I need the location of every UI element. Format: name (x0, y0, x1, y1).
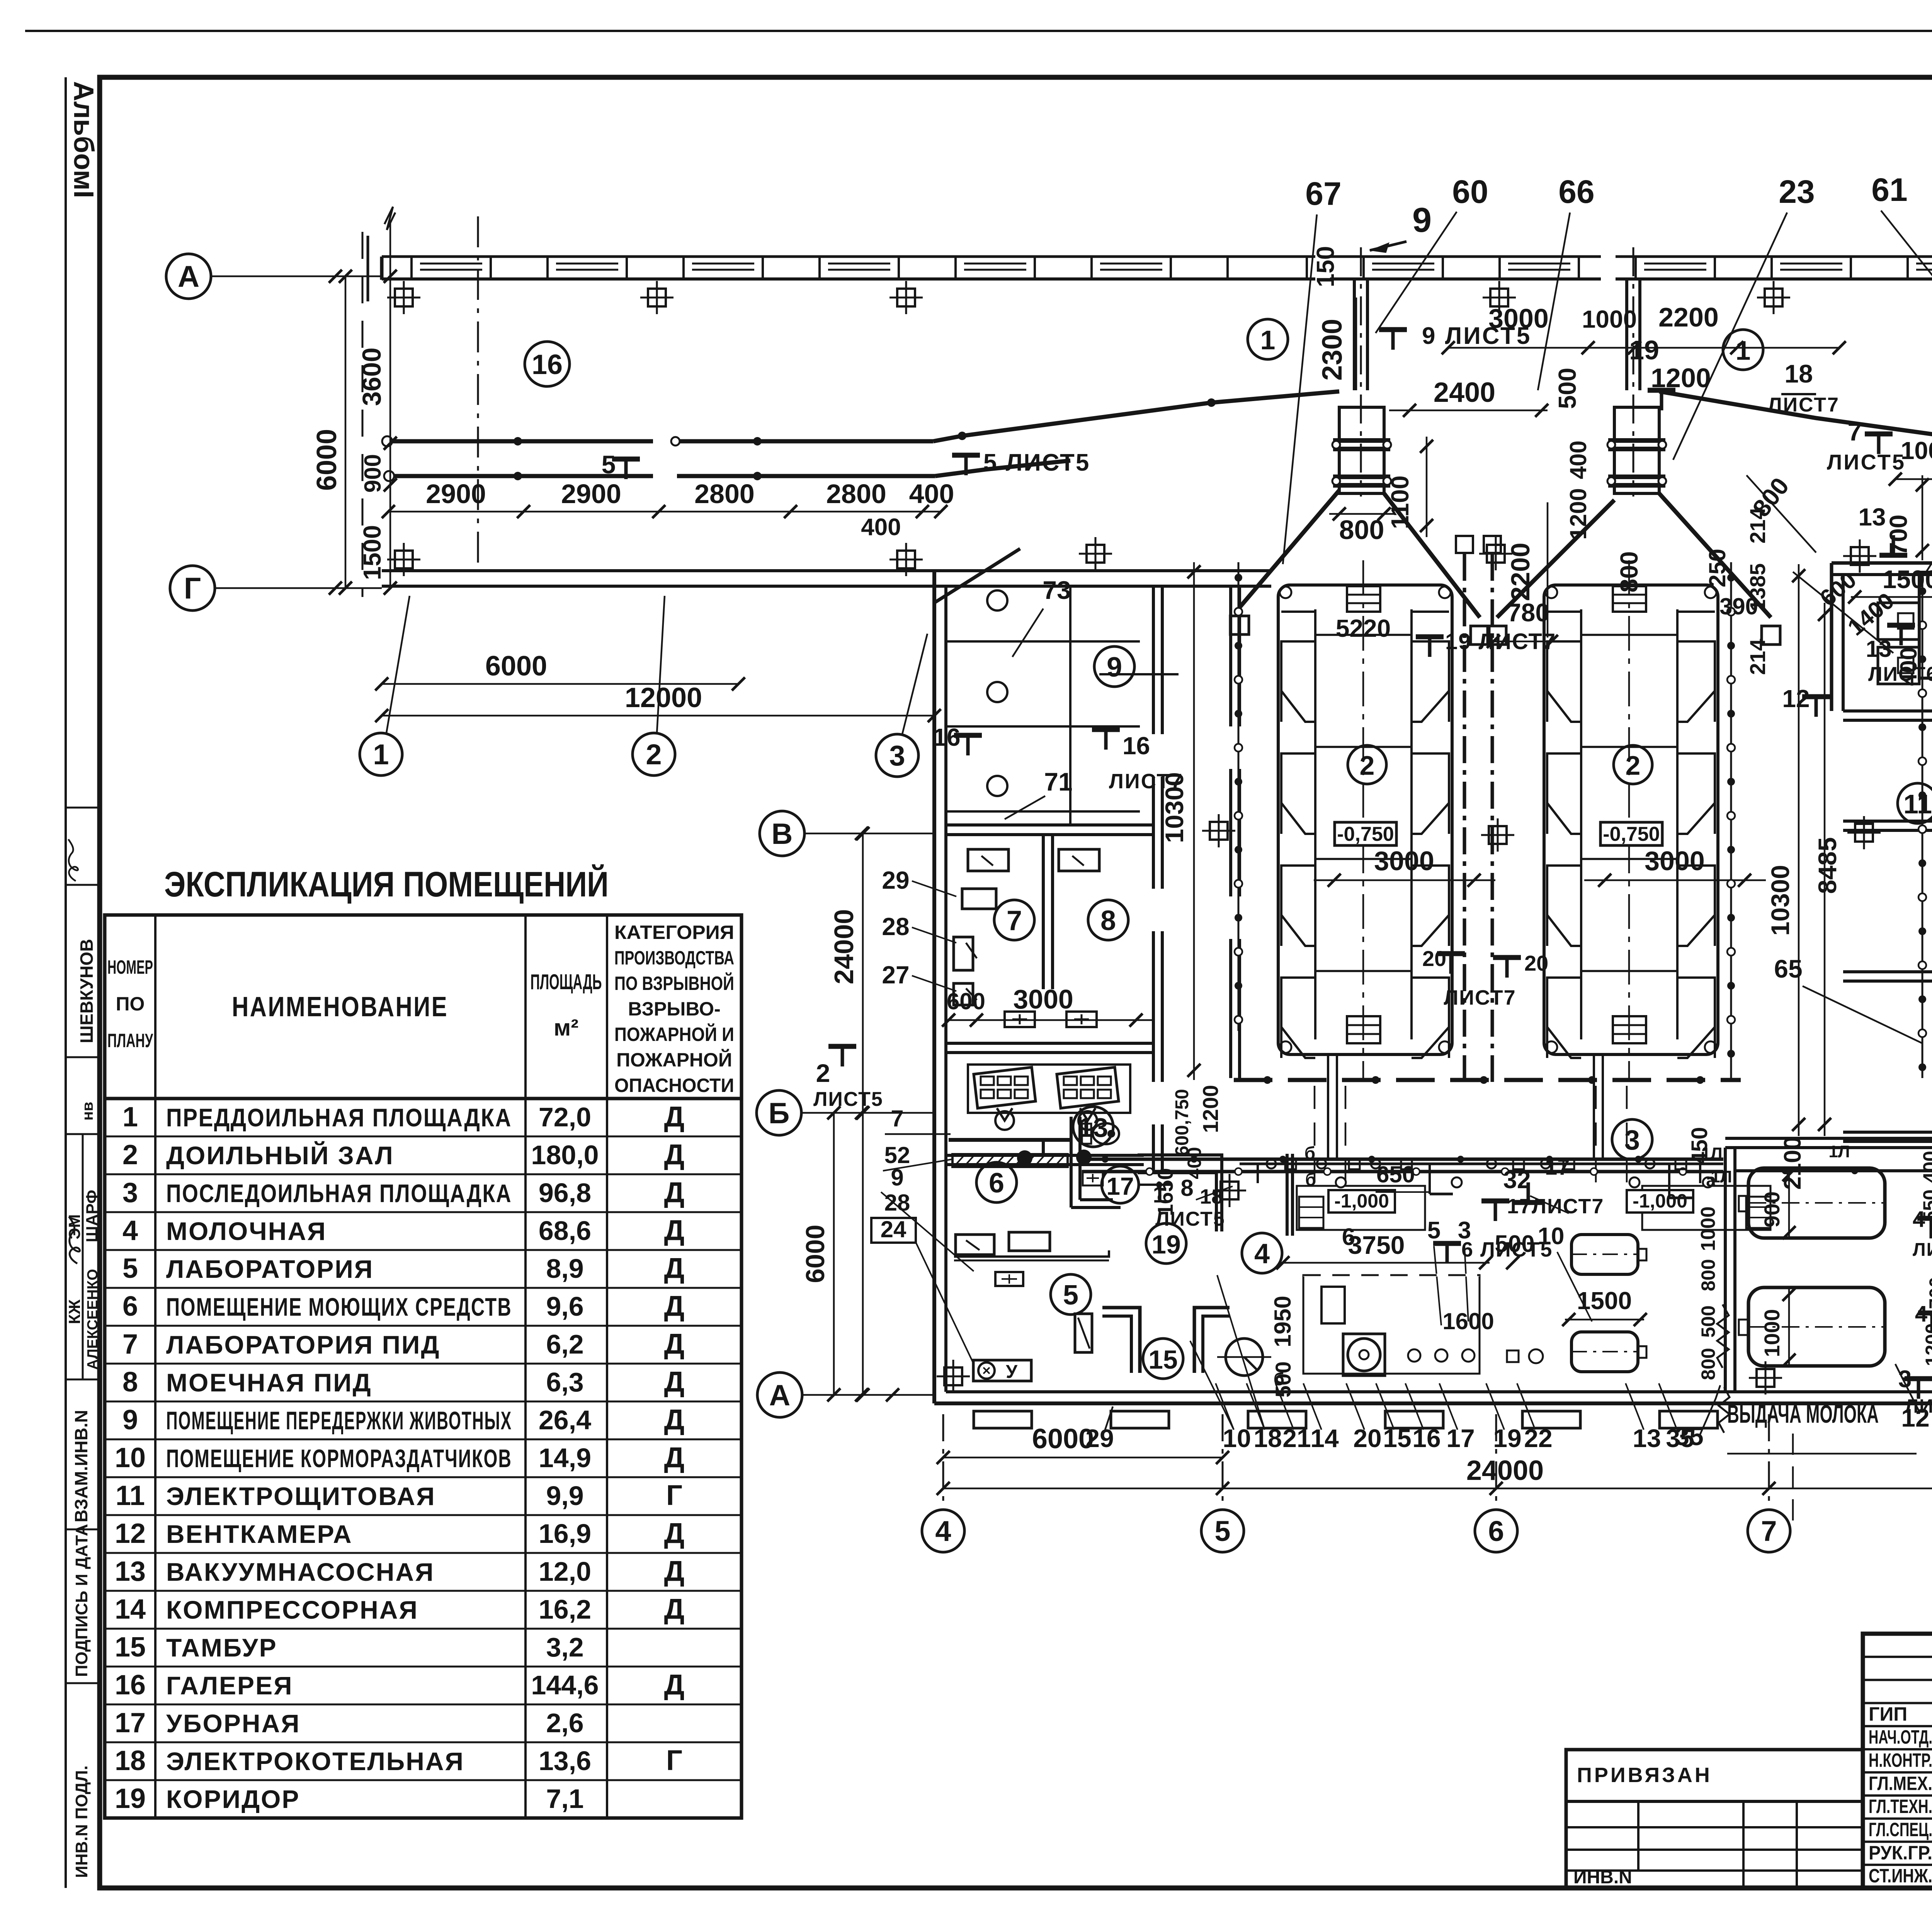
platform center lane (1314, 609, 1316, 1039)
svg-text:1: 1 (373, 738, 389, 770)
svg-text:10300: 10300 (1160, 772, 1189, 843)
gallery column symbols lower row (387, 543, 420, 576)
svg-text:2200: 2200 (1506, 543, 1535, 601)
svg-text:16,9: 16,9 (539, 1519, 591, 1549)
lab washers (968, 849, 1009, 871)
platform top side lines (1547, 611, 1581, 613)
svg-text:11: 11 (1903, 789, 1932, 819)
dim 1500 room10 (1851, 596, 1932, 598)
shelf line room5 (954, 1250, 1109, 1257)
svg-text:2400: 2400 (1434, 377, 1495, 408)
svg-text:400: 400 (909, 479, 954, 509)
svg-text:1200: 1200 (1198, 1085, 1223, 1133)
small tanks pair (1571, 1235, 1638, 1274)
svg-text:1650: 1650 (1153, 1168, 1177, 1216)
bottom axis dash lines (942, 1414, 944, 1507)
svg-text:ЭКСПЛИКАЦИЯ ПОМЕЩЕНИЙ: ЭКСПЛИКАЦИЯ ПОМЕЩЕНИЙ (164, 864, 609, 904)
table frame (105, 915, 742, 1818)
platform ladders (1613, 586, 1646, 612)
corridor L wall (1138, 1155, 1222, 1231)
svg-text:5: 5 (1427, 1217, 1440, 1244)
tank dims 900 1000 (1788, 1168, 1790, 1238)
vacuum pumps (974, 1067, 1036, 1108)
svg-text:ПОМЕЩЕНИЕ ПЕРЕДЕРЖКИ ЖИВОТНЫХ: ПОМЕЩЕНИЕ ПЕРЕДЕРЖКИ ЖИВОТНЫХ (166, 1406, 512, 1435)
svg-text:800: 800 (1697, 1348, 1719, 1380)
svg-text:МОЕЧНАЯ ПИД: МОЕЧНАЯ ПИД (166, 1368, 372, 1397)
svg-text:5: 5 (1214, 1515, 1230, 1547)
svg-text:700: 700 (1884, 515, 1912, 556)
svg-text:КАТЕГОРИЯ: КАТЕГОРИЯ (614, 922, 734, 943)
toilet sink (1083, 1171, 1103, 1185)
stamp strip divider (66, 1056, 100, 1058)
flag 5 list5 (952, 455, 980, 475)
svg-text:27: 27 (882, 961, 909, 989)
svg-text:м²: м² (554, 1015, 578, 1041)
left vertical dim 6000 (345, 276, 347, 588)
dim 3750 (1279, 1262, 1490, 1264)
svg-text:8485: 8485 (1813, 837, 1842, 894)
svg-text:180,0: 180,0 (531, 1140, 599, 1170)
vertical dim 24000 (862, 833, 864, 1395)
svg-text:ПО: ПО (116, 993, 145, 1015)
conveyor end boxes (1230, 616, 1249, 634)
svg-text:20: 20 (1422, 946, 1446, 971)
svg-text:ПРОИЗВОДСТВА: ПРОИЗВОДСТВА (614, 947, 734, 969)
svg-text:Д: Д (664, 1517, 685, 1549)
svg-text:ПЛАНУ: ПЛАНУ (107, 1030, 153, 1051)
title block left rows (1863, 1656, 1932, 1658)
svg-text:1000: 1000 (1760, 1309, 1784, 1357)
feed dispenser room10 (1919, 572, 1932, 678)
svg-text:ВАКУУМНАСОСНАЯ: ВАКУУМНАСОСНАЯ (166, 1558, 435, 1586)
stamp strip divider (66, 807, 100, 809)
svg-text:-1,000: -1,000 (1633, 1190, 1687, 1212)
south plinth blocks (974, 1411, 1032, 1428)
dims 1000 2200 2200 (1895, 478, 1932, 480)
left gallery pipe lower (388, 474, 653, 478)
hopper drop lines (1353, 280, 1356, 390)
queue lane dashed lines (1314, 1086, 1316, 1184)
svg-text:500: 500 (1553, 368, 1581, 409)
svg-text:900: 900 (360, 454, 386, 493)
platform stalls (1315, 634, 1412, 636)
svg-text:6: 6 (122, 1291, 138, 1322)
svg-text:УБОРНАЯ: УБОРНАЯ (166, 1709, 301, 1738)
svg-text:-1,000: -1,000 (1334, 1190, 1389, 1212)
svg-text:650: 650 (1376, 1162, 1415, 1187)
room 19 circle (1146, 1223, 1186, 1264)
svg-text:9: 9 (1412, 201, 1432, 240)
svg-text:15: 15 (115, 1632, 146, 1663)
svg-text:780: 780 (1507, 598, 1549, 627)
svg-text:ПОЖАРНОЙ: ПОЖАРНОЙ (616, 1049, 732, 1071)
svg-text:А: А (178, 259, 199, 293)
axis circle 2 (633, 733, 675, 776)
outer top trim line (25, 30, 1932, 32)
svg-text:Д: Д (664, 1668, 685, 1701)
svg-text:52: 52 (884, 1142, 910, 1168)
svg-text:5: 5 (122, 1253, 138, 1284)
svg-text:Д: Д (664, 1252, 685, 1284)
svg-text:214: 214 (1745, 639, 1770, 675)
stamp signature 2 (69, 1217, 80, 1264)
svg-text:28: 28 (882, 913, 909, 940)
svg-text:Н.КОНТР.: Н.КОНТР. (1869, 1750, 1932, 1771)
svg-text:НАЧ.ОТД.: НАЧ.ОТД. (1869, 1726, 1932, 1748)
svg-text:13: 13 (1858, 503, 1886, 531)
svg-text:ВЗРЫВО-: ВЗРЫВО- (628, 998, 720, 1020)
svg-text:400: 400 (1565, 440, 1591, 479)
svg-text:ШАРФ: ШАРФ (83, 1190, 101, 1242)
platform center lane (1580, 609, 1582, 1039)
tambour L walls (1102, 1308, 1140, 1373)
svg-text:67: 67 (1305, 175, 1341, 212)
svg-text:Б: Б (769, 1097, 790, 1130)
svg-text:ГЛ.СПЕЦ.: ГЛ.СПЕЦ. (1869, 1819, 1932, 1840)
heavy pipe to room14 (1735, 1169, 1932, 1172)
svg-text:ЛИСТ7: ЛИСТ7 (1444, 986, 1516, 1009)
svg-text:22: 22 (1524, 1424, 1552, 1452)
svg-text:1100: 1100 (1386, 476, 1414, 529)
axis circle 1 (360, 733, 402, 776)
svg-text:35: 35 (1666, 1424, 1694, 1452)
flag 13 top (1879, 535, 1907, 555)
flags 20 20 list7 (1437, 954, 1465, 974)
feed conveyor V lines (1240, 490, 1339, 607)
left gallery circle 16 (525, 342, 570, 386)
room 9 pen circles (987, 590, 1007, 611)
svg-text:19: 19 (1151, 1230, 1181, 1259)
left gallery pipe upper (386, 439, 653, 444)
room 6 circle (976, 1162, 1017, 1202)
svg-text:3,2: 3,2 (546, 1632, 583, 1662)
svg-text:16: 16 (532, 349, 563, 380)
stamp strip mid divider (82, 1134, 84, 1379)
svg-text:3000: 3000 (1488, 303, 1549, 333)
vacuum line to corridor (949, 1138, 1070, 1142)
svg-text:МОЛОЧНАЯ: МОЛОЧНАЯ (166, 1217, 327, 1245)
svg-text:214: 214 (1745, 507, 1770, 543)
flag 17 (1514, 1182, 1542, 1202)
axis circle A top (166, 254, 211, 299)
svg-text:Г: Г (666, 1479, 682, 1511)
svg-text:ЛИСТ5: ЛИСТ5 (1827, 450, 1906, 474)
platform top side lines (1281, 611, 1315, 613)
svg-text:ДОИЛЬНЫЙ ЗАЛ: ДОИЛЬНЫЙ ЗАЛ (166, 1141, 394, 1170)
dims 2900 2900 2800 2800 400 (388, 511, 941, 513)
callout leader group lines (1190, 1341, 1234, 1430)
svg-text:ГИП: ГИП (1869, 1703, 1907, 1725)
room5 benches (956, 1235, 994, 1255)
long sloped feed pipe to east (1659, 391, 1932, 539)
svg-text:-0,750: -0,750 (1603, 823, 1660, 845)
svg-text:17: 17 (115, 1708, 146, 1738)
big tanks pair (1748, 1168, 1885, 1238)
svg-text:3: 3 (122, 1177, 138, 1208)
svg-text:17: 17 (1446, 1424, 1475, 1452)
svg-text:ЛИСТ5: ЛИСТ5 (813, 1088, 883, 1111)
room 9 pen lines (946, 640, 1140, 643)
privyazan sub-table (1566, 1750, 1863, 1888)
svg-text:6: 6 (1488, 1515, 1504, 1547)
svg-text:2: 2 (122, 1139, 138, 1170)
svg-text:1000: 1000 (1582, 305, 1637, 333)
vertical dim 6000 left (833, 1113, 835, 1395)
svg-text:ЛИСТ6: ЛИСТ6 (1868, 663, 1932, 685)
room 13 circle (1073, 1107, 1113, 1147)
dim 3000 lane spacing 1 (1314, 879, 1495, 881)
svg-text:15: 15 (1148, 1345, 1178, 1374)
stamp strip divider (66, 1133, 100, 1135)
svg-text:500: 500 (1495, 1231, 1534, 1257)
svg-text:19: 19 (1493, 1424, 1521, 1452)
axis circle 3 (876, 734, 918, 777)
gallery column symbols top row (387, 281, 420, 314)
table header bottom (105, 1097, 742, 1100)
milk pipe fittings (1267, 1159, 1276, 1168)
sink unit Y (973, 1360, 1031, 1381)
pump frame (968, 1065, 1130, 1113)
dim 2400 (1389, 410, 1548, 412)
svg-text:-0,750: -0,750 (1337, 823, 1394, 845)
west gallery end wall (380, 257, 384, 280)
svg-text:28: 28 (884, 1190, 910, 1216)
tambour L walls 2 (1194, 1308, 1230, 1373)
svg-text:13: 13 (115, 1556, 146, 1587)
svg-text:КОРИДОР: КОРИДОР (166, 1785, 300, 1813)
svg-text:9: 9 (1107, 652, 1122, 683)
svg-text:Д: Д (664, 1328, 685, 1360)
svg-text:3: 3 (1624, 1125, 1640, 1156)
svg-text:15: 15 (1383, 1424, 1411, 1452)
svg-text:1950: 1950 (1270, 1296, 1296, 1347)
preddoilnaya rails (1082, 1158, 1723, 1161)
axis circle A bottom (757, 1372, 802, 1417)
svg-text:6000: 6000 (311, 429, 342, 491)
svg-text:Д: Д (664, 1176, 685, 1208)
room 7 circle (994, 900, 1034, 940)
fan unit (1343, 1334, 1385, 1376)
svg-text:7,1: 7,1 (546, 1784, 583, 1814)
svg-text:9: 9 (122, 1405, 138, 1435)
svg-text:6: 6 (989, 1168, 1004, 1199)
svg-text:5 ЛИСТ5: 5 ЛИСТ5 (983, 449, 1090, 476)
left gallery south wall (382, 569, 1271, 572)
svg-text:9,9: 9,9 (546, 1481, 583, 1511)
table row lines (105, 1136, 742, 1138)
svg-text:13: 13 (1866, 636, 1892, 662)
left vertical dims 3600 900 1500 (389, 222, 391, 588)
svg-text:13: 13 (1633, 1424, 1661, 1452)
svg-text:24000: 24000 (829, 909, 859, 985)
svg-text:1Л: 1Л (1701, 1144, 1722, 1163)
svg-text:12000: 12000 (625, 682, 702, 713)
svg-text:ЛАБОРАТОРИЯ: ЛАБОРАТОРИЯ (166, 1255, 374, 1283)
axis D dashed line (362, 232, 364, 597)
svg-text:3000: 3000 (1645, 846, 1705, 876)
svg-text:Д: Д (664, 1214, 685, 1246)
milking platform outline (1544, 585, 1718, 1054)
svg-text:7: 7 (122, 1329, 138, 1360)
svg-text:10: 10 (1223, 1424, 1251, 1452)
svg-text:ПРИВЯЗАН: ПРИВЯЗАН (1577, 1764, 1712, 1787)
svg-text:2300: 2300 (1317, 319, 1348, 381)
svg-text:АльбомI: АльбомI (68, 81, 99, 198)
svg-text:ШЕВКУНОВ: ШЕВКУНОВ (77, 939, 97, 1043)
svg-text:19 ЛИСТ7: 19 ЛИСТ7 (1445, 629, 1556, 654)
svg-text:1500: 1500 (358, 525, 386, 580)
vydacha dim line (1727, 1453, 1917, 1455)
hall bottom heavy dashed line (1234, 1078, 1741, 1082)
hopper 1 dim 800 (1329, 513, 1394, 515)
svg-text:3000: 3000 (1013, 984, 1073, 1014)
svg-text:16: 16 (1412, 1424, 1440, 1452)
hopper 1 (1339, 407, 1384, 493)
svg-text:11: 11 (116, 1480, 145, 1511)
channel top squares (1456, 536, 1473, 553)
svg-text:71: 71 (1044, 767, 1072, 796)
svg-text:2900: 2900 (561, 479, 621, 509)
svg-text:12,0: 12,0 (539, 1556, 591, 1587)
svg-text:2: 2 (646, 738, 662, 770)
room 13 / 6 divider (946, 1154, 1144, 1157)
title block frame (1863, 1634, 1932, 1888)
svg-text:Д: Д (664, 1403, 685, 1435)
svg-text:250: 250 (1704, 549, 1730, 587)
svg-text:400: 400 (1184, 1147, 1205, 1179)
svg-text:ИНВ.N: ИНВ.N (1573, 1867, 1632, 1888)
svg-text:ЛИСТ7: ЛИСТ7 (1768, 394, 1840, 416)
platform level mark (1600, 822, 1662, 845)
cabinet dark (1075, 1314, 1092, 1352)
svg-text:1500: 1500 (1883, 565, 1932, 594)
callout 24 boxed (871, 1218, 916, 1243)
dashed service rect (1303, 1275, 1480, 1374)
room 11 circle (1898, 783, 1932, 823)
svg-text:ИНВ.N ПОДЛ.: ИНВ.N ПОДЛ. (72, 1765, 91, 1878)
flag 6 list5 (1433, 1243, 1461, 1264)
dim 6000 bottom (943, 1457, 1223, 1459)
svg-text:20: 20 (1353, 1424, 1381, 1452)
table verticals (154, 915, 156, 1818)
svg-text:19: 19 (115, 1783, 146, 1814)
svg-text:ПОСЛЕДОИЛЬНАЯ ПЛОЩАДКА: ПОСЛЕДОИЛЬНАЯ ПЛОЩАДКА (166, 1179, 512, 1207)
svg-text:КЖ: КЖ (65, 1299, 83, 1324)
stamp strip divider (66, 884, 100, 886)
svg-text:8: 8 (1100, 905, 1116, 936)
small heater (995, 1272, 1023, 1286)
svg-text:6000: 6000 (1032, 1423, 1094, 1454)
svg-text:РУК.ГР.: РУК.ГР. (1869, 1842, 1932, 1864)
pipe tap circles (1336, 1177, 1346, 1187)
platform ladders (1347, 586, 1380, 612)
svg-text:24: 24 (881, 1216, 906, 1242)
svg-text:61: 61 (1871, 172, 1907, 208)
svg-text:13,6: 13,6 (539, 1746, 591, 1776)
hopper 2 (1614, 407, 1659, 493)
svg-text:2,6: 2,6 (546, 1708, 583, 1738)
circle 1 room right (1723, 330, 1763, 370)
dims 3000 1000 2200 above hopper2 (1448, 347, 1839, 349)
svg-text:2: 2 (816, 1059, 830, 1087)
axis circle G (170, 566, 215, 611)
rooms 7/8 divider vertical (1042, 835, 1045, 989)
svg-text:21: 21 (1282, 1424, 1311, 1452)
hopper drop lines (1625, 280, 1628, 390)
svg-text:800: 800 (1339, 515, 1384, 545)
svg-text:А: А (769, 1379, 791, 1412)
platform stalls (1581, 634, 1677, 636)
svg-text:17: 17 (1106, 1172, 1134, 1200)
axis circle 7 (1748, 1510, 1790, 1552)
flag 2 list5 (828, 1046, 856, 1066)
svg-text:10300: 10300 (1766, 865, 1794, 936)
dim 6000 below gallery (382, 683, 738, 685)
svg-text:ПОМЕЩЕНИЕ КОРМОРАЗДАТЧИКОВ: ПОМЕЩЕНИЕ КОРМОРАЗДАТЧИКОВ (166, 1444, 512, 1473)
svg-text:Д: Д (664, 1138, 685, 1170)
svg-text:нв: нв (79, 1102, 96, 1121)
svg-text:16: 16 (115, 1670, 146, 1701)
room 3 circle (1612, 1119, 1652, 1160)
svg-text:ЭМ: ЭМ (65, 1214, 83, 1240)
svg-text:АЛЕКСЕЕНКО: АЛЕКСЕЕНКО (85, 1269, 101, 1370)
svg-text:73: 73 (1043, 576, 1071, 604)
svg-text:96,8: 96,8 (539, 1178, 591, 1208)
small fittings row (1408, 1349, 1420, 1362)
dim 24000 bottom (943, 1488, 1932, 1490)
corridor east walls (1229, 587, 1232, 726)
flag 9 list5 (1379, 330, 1407, 350)
heaters room 13 (1005, 1012, 1035, 1027)
axis circle V (760, 811, 804, 856)
svg-text:4: 4 (122, 1215, 138, 1246)
svg-text:СТ.ИНЖ.: СТ.ИНЖ. (1869, 1865, 1932, 1887)
room 9 inner vertical (1069, 586, 1071, 825)
svg-text:Д: Д (664, 1290, 685, 1322)
wall fixtures 29 28 27 (962, 889, 996, 909)
svg-text:2: 2 (1626, 750, 1641, 781)
svg-text:ЭЛЕКТРОЩИТОВАЯ: ЭЛЕКТРОЩИТОВАЯ (166, 1482, 436, 1510)
svg-text:Д: Д (664, 1366, 685, 1398)
room 15 circle (1143, 1338, 1183, 1379)
svg-text:Г: Г (184, 571, 201, 605)
platform room circle 2 (1614, 745, 1652, 784)
svg-text:7: 7 (1007, 905, 1022, 936)
svg-text:8: 8 (122, 1367, 138, 1398)
svg-text:2800: 2800 (694, 479, 755, 509)
hatched grille 52 (952, 1154, 1068, 1167)
svg-text:14: 14 (1310, 1424, 1339, 1452)
svg-text:16,2: 16,2 (539, 1594, 591, 1624)
stamp strip divider (66, 1529, 100, 1531)
svg-text:6,3: 6,3 (546, 1367, 583, 1397)
room 10 west wall (1830, 563, 1833, 711)
svg-text:26,4: 26,4 (539, 1405, 591, 1435)
stamp strip outer line (65, 77, 67, 1888)
svg-text:18: 18 (1784, 359, 1813, 388)
platform center axis (1362, 560, 1364, 1082)
platform level mark (1335, 822, 1396, 845)
svg-text:ЭЛЕКТРОКОТЕЛЬНАЯ: ЭЛЕКТРОКОТЕЛЬНАЯ (166, 1747, 464, 1776)
svg-text:6000: 6000 (801, 1225, 830, 1283)
svg-text:В: В (772, 818, 793, 850)
svg-text:2800: 2800 (826, 479, 886, 509)
room 4 circle (1242, 1233, 1282, 1273)
axis line dashdot left (477, 216, 479, 568)
svg-text:17ЛИСТ7: 17ЛИСТ7 (1507, 1195, 1604, 1218)
svg-text:1Л: 1Л (1828, 1142, 1850, 1161)
svg-text:2900: 2900 (426, 479, 486, 509)
